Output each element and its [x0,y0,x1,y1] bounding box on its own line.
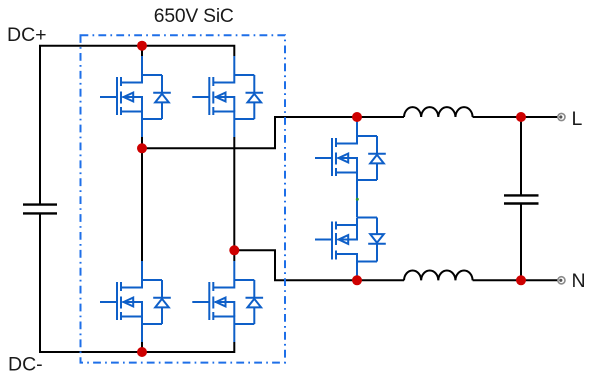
svg-text:L: L [572,108,583,130]
svg-text:N: N [572,270,586,292]
svg-text:650V SiC: 650V SiC [154,6,234,27]
svg-text:DC-: DC- [8,354,43,376]
svg-text:DC+: DC+ [7,24,47,46]
